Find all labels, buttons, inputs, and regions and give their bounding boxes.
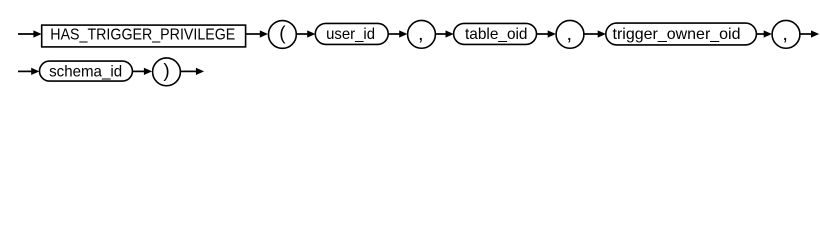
- arrowhead row1 end: [811, 30, 819, 37]
- svg-text:(: (: [279, 24, 286, 45]
- wire open-paren to user_id: [297, 33, 308, 35]
- arrowhead into schema_id: [31, 68, 39, 75]
- wire rect to open-paren: [246, 33, 261, 35]
- arrowhead into trigger_owner_oid: [598, 30, 606, 37]
- stadium trigger_owner_oid: [606, 23, 757, 45]
- svg-text:): ): [163, 61, 169, 82]
- wire row2 end: [181, 70, 197, 72]
- wire comma2 to trigger_owner_oid: [584, 33, 598, 35]
- circle comma3: [772, 20, 800, 48]
- svg-text:,: ,: [418, 23, 424, 45]
- arrowhead into HAS_TRIGGER_PRIVILEGE: [33, 30, 41, 37]
- wire table_oid to comma2: [537, 33, 549, 35]
- arrowhead into open-paren: [260, 30, 268, 37]
- circle comma1: [408, 20, 436, 48]
- svg-text:schema_id: schema_id: [49, 63, 122, 80]
- svg-text:user_id: user_id: [326, 26, 375, 43]
- stadium table_oid: [454, 23, 537, 44]
- arrowhead row2 end: [196, 68, 204, 75]
- arrowhead into comma2: [548, 30, 556, 37]
- arrowhead into user_id: [307, 30, 315, 37]
- stadium schema_id: [40, 61, 133, 81]
- wire row2 start: [18, 70, 33, 72]
- wire user_id to comma1: [388, 33, 400, 35]
- svg-text:,: ,: [567, 23, 573, 45]
- arrowhead into close-paren: [144, 68, 152, 75]
- circle comma2: [556, 20, 584, 48]
- terminal box HAS_TRIGGER_PRIVILEGE: [42, 25, 246, 47]
- stadium user_id: [315, 23, 388, 44]
- wire row1 end continuation: [800, 33, 811, 35]
- arrowhead into table_oid: [446, 30, 454, 37]
- svg-text:HAS_TRIGGER_PRIVILEGE: HAS_TRIGGER_PRIVILEGE: [50, 27, 235, 44]
- circle open-paren: [269, 21, 297, 49]
- svg-text:table_oid: table_oid: [465, 26, 528, 43]
- svg-text:trigger_owner_oid: trigger_owner_oid: [613, 26, 741, 43]
- wire row1 start: [18, 33, 35, 35]
- arrowhead into comma3: [764, 30, 772, 37]
- circle close-paren: [153, 58, 181, 86]
- wire trigger_owner_oid to comma3: [756, 33, 764, 35]
- arrowhead into comma1: [399, 30, 407, 37]
- svg-text:,: ,: [782, 23, 788, 45]
- wire comma1 to table_oid: [436, 33, 446, 35]
- wire schema_id to close-paren: [132, 70, 144, 72]
